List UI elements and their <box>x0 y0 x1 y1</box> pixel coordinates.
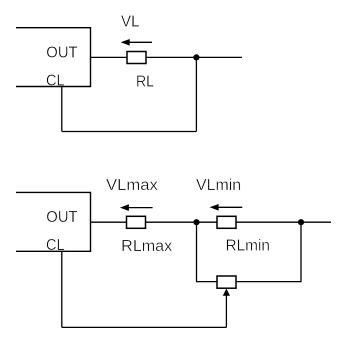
resistor RLmin <box>217 216 236 228</box>
wire feedback bottom run (top circuit) <box>62 131 197 133</box>
wire RLmax to resistor RLmin through node B <box>146 221 218 223</box>
wire pot row right segment <box>236 281 301 283</box>
svg-text:RLmin: RLmin <box>226 238 271 255</box>
svg-text:RL: RL <box>136 73 154 90</box>
potentiometer resistor (lower box) <box>217 276 236 288</box>
resistor RL <box>127 52 146 64</box>
voltage arrow VLmax (points left) <box>120 204 153 211</box>
svg-text:OUT: OUT <box>46 209 78 226</box>
wire node C down to pot row <box>300 222 302 282</box>
wire pot row left segment <box>197 281 218 283</box>
wire OUT pin to resistor RLmax <box>91 221 127 223</box>
voltage arrow VL (points left) <box>121 39 152 46</box>
wire node A down <box>195 57 197 131</box>
resistor RLmax <box>127 216 146 228</box>
svg-text:RLmax: RLmax <box>121 238 172 255</box>
node A junction dot <box>193 54 199 60</box>
svg-text:OUT: OUT <box>46 44 78 61</box>
wire CL bottom horizontal run <box>62 326 227 328</box>
wire RLmin to node C and open right end <box>236 221 331 223</box>
regulator box U1 (top circuit, open left side) <box>16 28 91 87</box>
wire node B down to pot row <box>196 222 198 282</box>
wire RL to node A and open right end <box>146 56 242 58</box>
wiper arrow up into potentiometer <box>223 289 230 328</box>
svg-text:VLmin: VLmin <box>196 177 241 194</box>
wire OUT pin to resistor RL <box>91 56 128 58</box>
wire CL drop (bottom circuit) <box>61 251 63 327</box>
node C junction dot <box>298 219 304 225</box>
svg-text:VLmax: VLmax <box>106 177 158 194</box>
regulator box U2 (bottom circuit, open left side) <box>16 192 91 251</box>
node B junction dot <box>193 219 199 225</box>
voltage arrow VLmin (points left) <box>210 204 243 211</box>
wire CL drop (top circuit) <box>61 87 63 132</box>
svg-text:VL: VL <box>121 14 140 31</box>
